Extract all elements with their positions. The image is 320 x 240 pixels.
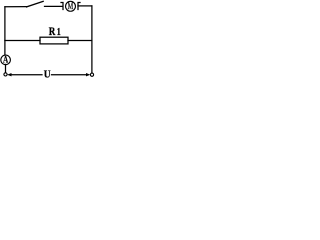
ammeter A circle <box>1 55 11 65</box>
voltage arrow right segment <box>52 74 89 76</box>
terminal right (open circle) <box>90 73 93 76</box>
voltage arrow left segment <box>10 74 43 76</box>
svg-text:M: M <box>68 1 74 11</box>
motor right terminal bracket <box>78 3 80 10</box>
arrowhead left <box>7 73 11 76</box>
wire resistor branch right <box>68 40 92 42</box>
svg-text:R: R <box>49 26 56 38</box>
arrowhead right <box>86 73 90 76</box>
wire top-left <box>5 6 27 8</box>
switch S blade <box>27 1 44 7</box>
wire motor-to-corner <box>78 5 92 7</box>
wire left side upper <box>4 7 6 55</box>
svg-text:U: U <box>44 69 51 80</box>
motor M circle <box>66 1 76 11</box>
wire resistor branch left <box>5 40 40 42</box>
wire switch-to-motor <box>45 5 63 7</box>
terminal left (open circle) <box>4 73 7 76</box>
wire ammeter-to-terminal <box>5 64 7 72</box>
resistor R1 box <box>40 37 68 44</box>
svg-text:1: 1 <box>57 27 61 38</box>
wire right side <box>91 6 93 73</box>
motor left terminal bracket <box>61 3 63 10</box>
